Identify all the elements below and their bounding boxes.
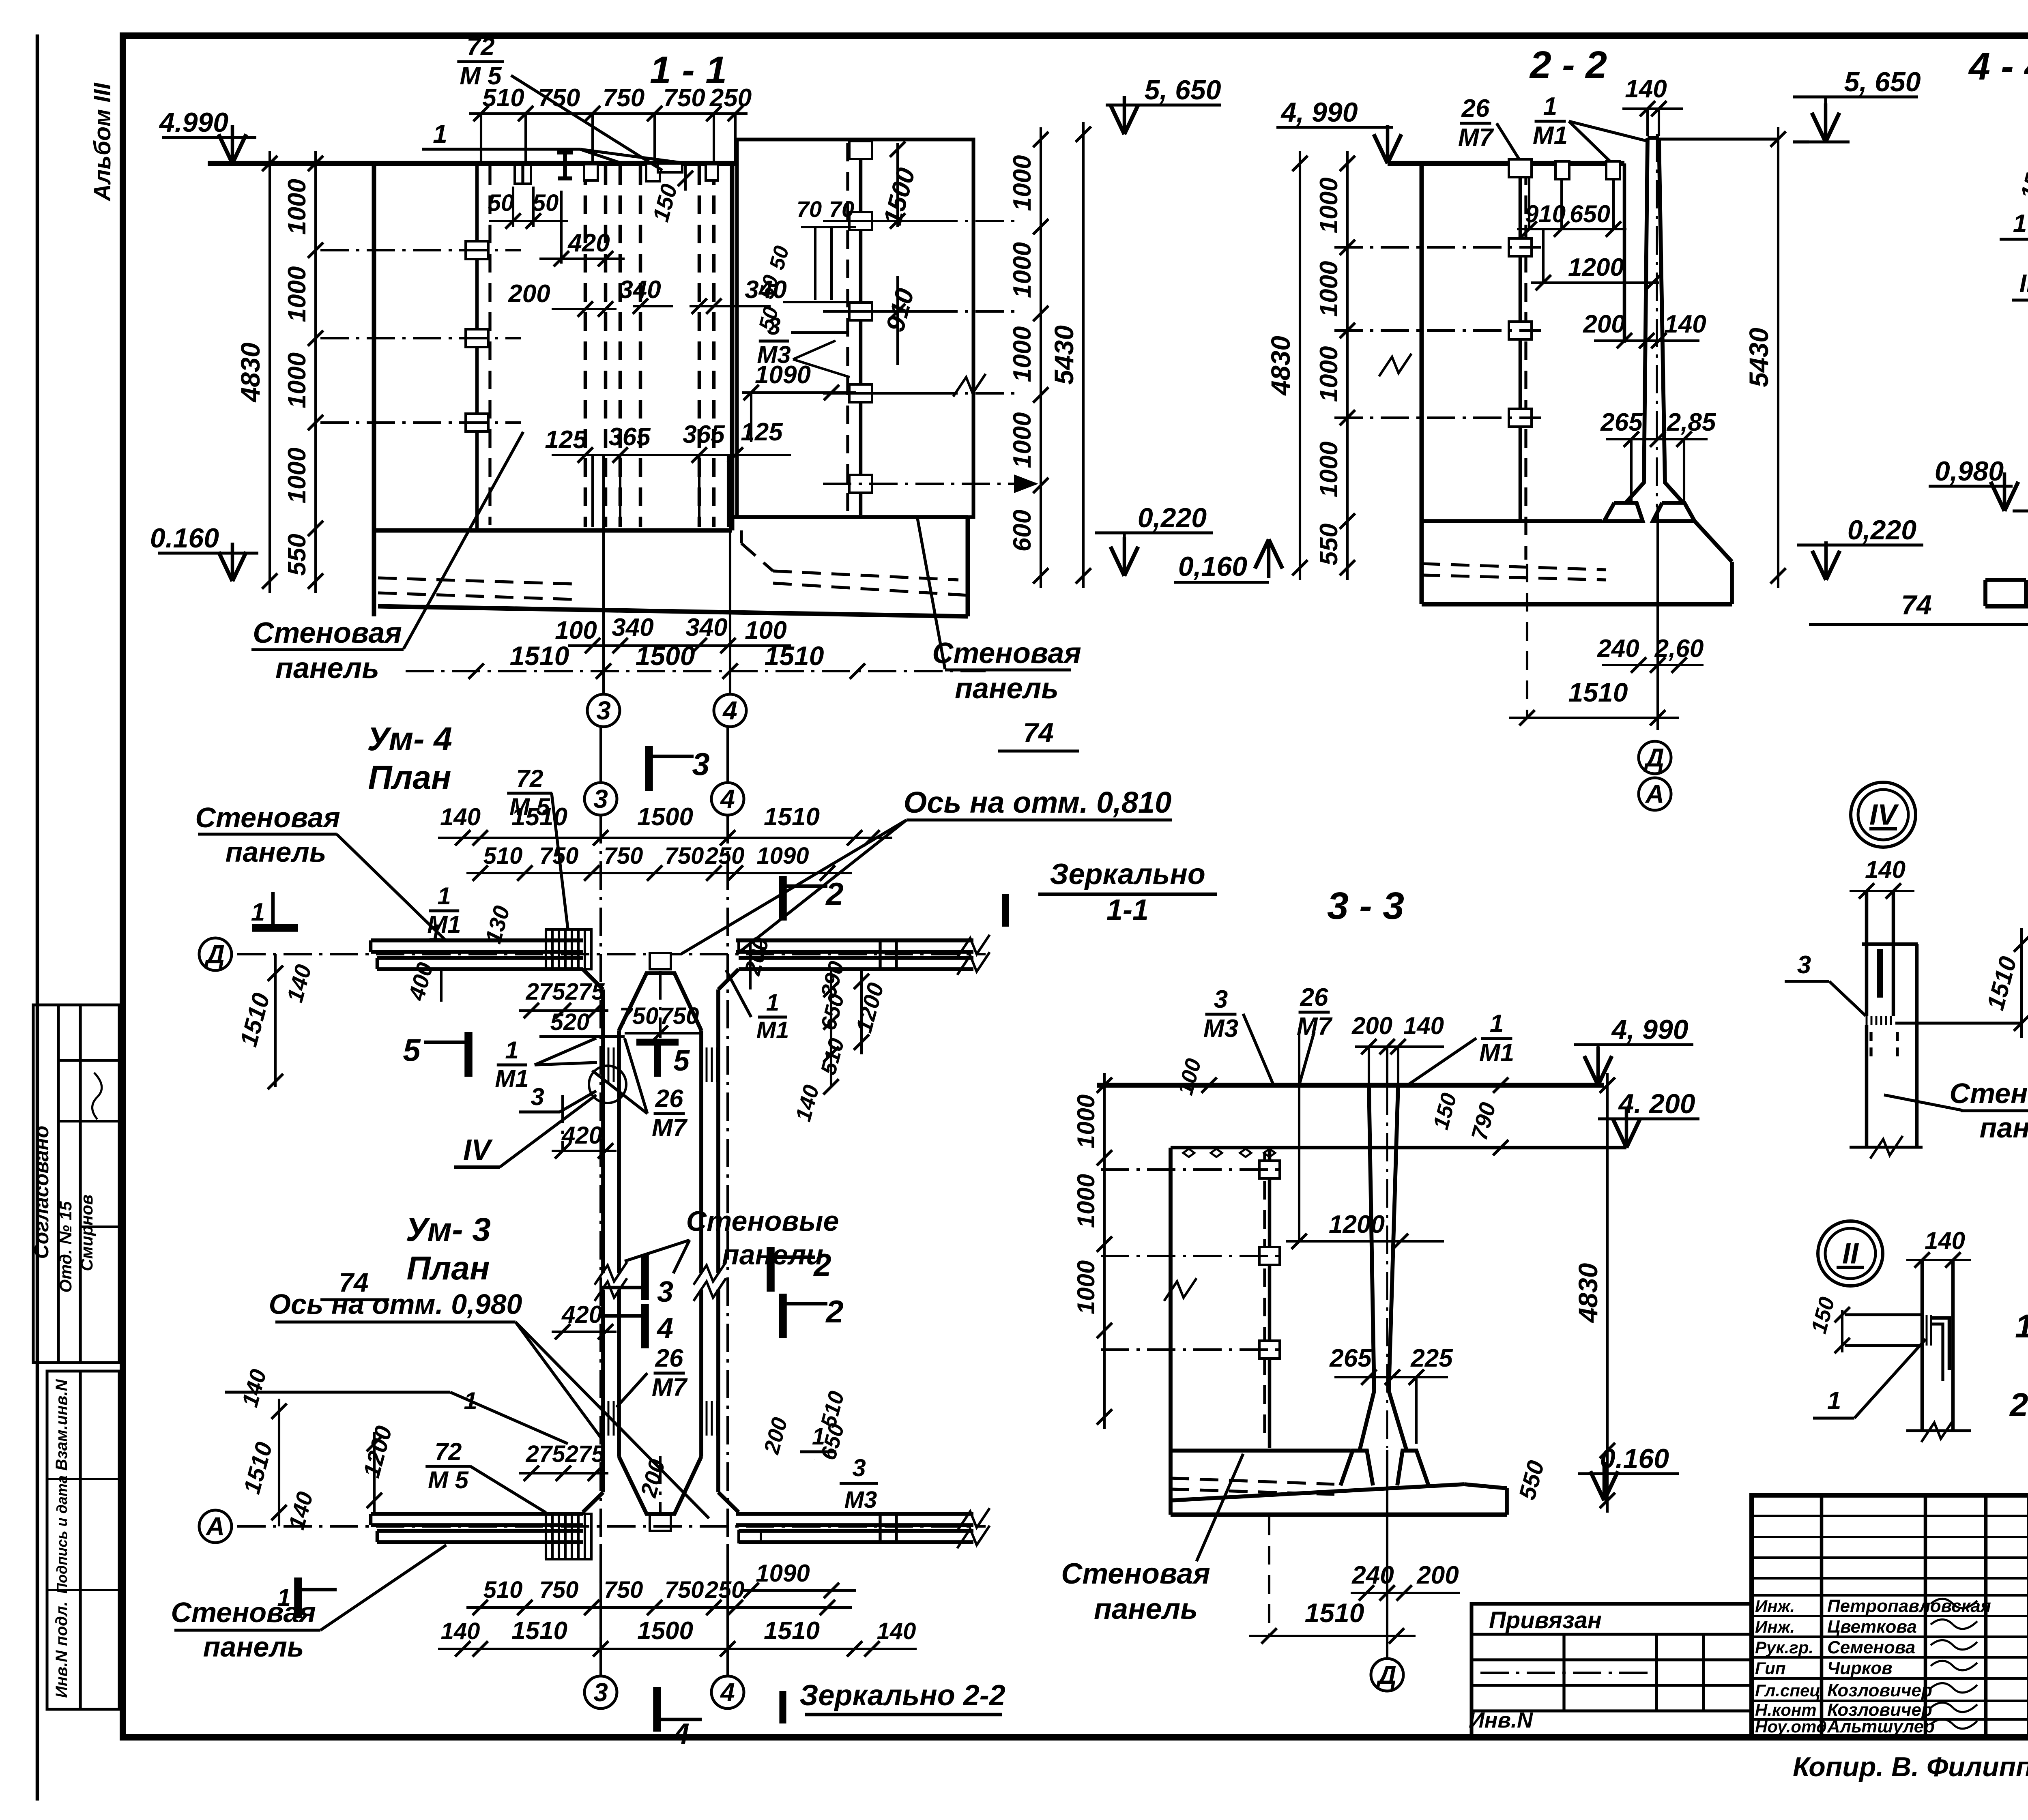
svg-text:панель: панель: [275, 652, 379, 685]
svg-text:Ум- 3: Ум- 3: [406, 1211, 491, 1248]
svg-text:1: 1: [1543, 92, 1557, 120]
svg-text:3: 3: [531, 1083, 544, 1110]
svg-text:0,980: 0,980: [1935, 456, 2004, 487]
svg-text:4830: 4830: [1573, 1263, 1603, 1323]
svg-text:750: 750: [665, 1577, 704, 1603]
svg-text:1000: 1000: [1008, 412, 1036, 468]
band joints plan3: [739, 1531, 761, 1542]
svg-text:550: 550: [1315, 524, 1343, 565]
corridor walls plan4: [601, 989, 605, 1273]
svg-text:панель: панель: [203, 1631, 304, 1663]
svg-text:1: 1: [251, 898, 265, 926]
svg-text:2: 2: [825, 1294, 843, 1329]
svg-text:70: 70: [797, 196, 822, 222]
section flag 2 bottom plan4: [767, 1247, 775, 1292]
svg-text:200: 200: [1351, 1012, 1392, 1039]
svg-text:910: 910: [1525, 200, 1566, 227]
svg-text:План: План: [406, 1250, 490, 1287]
svg-text:3 - 3: 3 - 3: [1327, 884, 1404, 927]
svg-text:750: 750: [604, 843, 643, 869]
svg-text:5430: 5430: [1049, 325, 1079, 385]
svg-text:5, 650: 5, 650: [1144, 75, 1221, 105]
svg-text:1000: 1000: [1008, 155, 1036, 211]
svg-text:1: 1: [1490, 1010, 1504, 1038]
svg-text:М1: М1: [756, 1017, 789, 1043]
interior line 3-3: [1268, 1150, 1272, 1448]
svg-text:Инж.: Инж.: [1755, 1597, 1795, 1616]
signature rows: [1752, 1594, 2028, 1597]
svg-text:Н.конт: Н.конт: [1755, 1700, 1817, 1719]
svg-text:5: 5: [673, 1045, 690, 1077]
wall band plan3: [371, 1512, 583, 1516]
svg-text:3: 3: [593, 1678, 608, 1707]
axis dash-dot rows left panel: [320, 249, 521, 251]
svg-text:А: А: [205, 1512, 225, 1541]
svg-text:Цветкова: Цветкова: [1827, 1617, 1917, 1637]
label 26 extension 3-3: [1298, 1032, 1300, 1241]
svg-text:365: 365: [608, 423, 651, 451]
svg-text:Стеновая: Стеновая: [1061, 1558, 1210, 1590]
svg-text:200: 200: [1416, 1561, 1459, 1589]
svg-text:140: 140: [1664, 310, 1706, 338]
svg-text:340: 340: [685, 614, 727, 642]
svg-text:4: 4: [722, 696, 737, 725]
svg-text:420: 420: [567, 229, 610, 257]
svg-text:М1: М1: [1533, 122, 1568, 150]
formwork dashed joints 1-1: [584, 166, 587, 527]
svg-text:4: 4: [720, 1678, 735, 1707]
svg-text:3: 3: [767, 313, 780, 340]
section flag 4 bottom plan3: [653, 1687, 661, 1732]
svg-text:125: 125: [741, 418, 783, 446]
svg-text:1090: 1090: [756, 843, 809, 869]
svg-text:140: 140: [440, 803, 481, 831]
svg-text:510: 510: [483, 1577, 523, 1603]
svg-text:Инв.N: Инв.N: [1469, 1708, 1533, 1732]
svg-text:140: 140: [1865, 856, 1906, 883]
svg-text:II: II: [1842, 1237, 1859, 1270]
svg-text:100: 100: [555, 616, 597, 644]
svg-text:520: 520: [550, 1009, 590, 1035]
axis bubble A plan3: [199, 1510, 232, 1543]
axis bubbles 3 4 bottom: [584, 1676, 617, 1708]
svg-text:IV: IV: [463, 1134, 493, 1166]
svg-text:1510: 1510: [1568, 677, 1628, 707]
svg-text:1000: 1000: [1315, 261, 1343, 317]
svg-text:4, 990: 4, 990: [1611, 1014, 1688, 1045]
svg-text:1: 1: [1827, 1387, 1841, 1415]
left margin approval stamp: [33, 1005, 119, 1363]
svg-text:Копир. В. Филиппова: Копир. В. Филиппова: [1793, 1751, 2028, 1782]
hanger embeds at top chord: [515, 165, 531, 184]
svg-text:М3: М3: [844, 1487, 877, 1513]
svg-text:панель: панель: [1094, 1593, 1198, 1625]
svg-text:26: 26: [655, 1344, 683, 1372]
svg-text:2 - 2: 2 - 2: [1529, 43, 1607, 86]
corridor wall hatches plan3: [602, 1401, 604, 1436]
svg-text:26: 26: [1300, 983, 1328, 1011]
svg-text:1510: 1510: [764, 803, 820, 831]
section mark 5-5 T plan4: [636, 1039, 679, 1045]
svg-text:750: 750: [665, 843, 704, 869]
section flag 1 left plan4: [252, 924, 298, 932]
svg-text:365: 365: [683, 421, 725, 449]
svg-text:Гл.спец: Гл.спец: [1755, 1681, 1820, 1700]
axis verticals through plans: [599, 815, 602, 1675]
svg-text:750: 750: [604, 1577, 643, 1603]
right wall panel rect 1-1: [737, 140, 973, 517]
svg-text:Инв.N подл.: Инв.N подл.: [53, 1601, 71, 1698]
svg-text:3: 3: [1214, 985, 1228, 1013]
chord 2-2: [1388, 161, 1624, 166]
svg-text:250: 250: [705, 1577, 745, 1603]
svg-text:200: 200: [508, 280, 550, 308]
bottom foundation left part: [732, 515, 968, 519]
svg-text:1000: 1000: [1008, 242, 1036, 298]
svg-text:1000: 1000: [1072, 1260, 1100, 1314]
svg-text:1000: 1000: [1315, 178, 1343, 234]
svg-text:М 5: М 5: [509, 793, 551, 820]
band panel joints plan4: [739, 940, 761, 952]
svg-text:1090: 1090: [755, 361, 811, 389]
level line top chord 1-1: [208, 161, 737, 166]
svg-text:Зеркально 2-2: Зеркально 2-2: [799, 1679, 1005, 1712]
svg-text:1000: 1000: [1072, 1095, 1100, 1148]
svg-text:225: 225: [1410, 1344, 1453, 1372]
svg-text:1000: 1000: [283, 448, 311, 504]
svg-text:1: 1: [766, 989, 779, 1016]
svg-text:1000: 1000: [283, 179, 311, 235]
svg-text:140: 140: [1625, 75, 1667, 103]
foundation 2-2: [1604, 503, 1643, 521]
svg-text:0,220: 0,220: [1848, 515, 1916, 545]
center tab element plan3: [650, 1515, 671, 1531]
svg-text:панель: панель: [226, 836, 327, 868]
svg-text:Ум- 4: Ум- 4: [367, 721, 452, 758]
svg-text:Ноу.отд: Ноу.отд: [1755, 1717, 1827, 1736]
axis rows 3-3: [1101, 1168, 1286, 1171]
svg-text:1. Совместно с данным см.: 1. Совместно с данным см.: [2015, 1308, 2028, 1345]
svg-text:1000: 1000: [1072, 1174, 1100, 1228]
svg-text:1500: 1500: [637, 803, 693, 831]
svg-text:250: 250: [709, 84, 752, 112]
svg-text:600: 600: [1008, 510, 1036, 552]
svg-text:74: 74: [1901, 590, 1932, 620]
detail IV bubble: [1851, 782, 1916, 847]
svg-text:420: 420: [561, 1301, 602, 1328]
center tab element plan4: [650, 953, 671, 969]
corridor wall hatches plan4: [602, 1047, 604, 1082]
svg-text:750: 750: [660, 1003, 699, 1029]
svg-text:Ось на отм. 0,810: Ось на отм. 0,810: [904, 786, 1172, 819]
right chain 4830 3-3: [1606, 1073, 1609, 1513]
svg-text:3: 3: [596, 696, 611, 725]
axis bubble 3: [587, 694, 620, 727]
svg-text:4830: 4830: [235, 342, 265, 403]
vertical dim 4830 view 1-1: [269, 151, 271, 593]
svg-text:750: 750: [539, 1577, 579, 1603]
svg-text:140: 140: [441, 1618, 480, 1644]
svg-text:72: 72: [435, 1438, 462, 1465]
left margin inventory stamp: [47, 1371, 119, 1709]
svg-text:4: 4: [720, 784, 735, 813]
wall rect 2-2: [1420, 163, 1424, 521]
section flag 4 top plan3: [641, 1304, 649, 1348]
svg-text:М3: М3: [1203, 1015, 1238, 1043]
svg-text:Рук.гр.: Рук.гр.: [1755, 1638, 1813, 1657]
svg-text:Стеновая: Стеновая: [171, 1597, 316, 1628]
svg-text:250: 250: [705, 843, 745, 869]
svg-text:50: 50: [533, 190, 559, 216]
svg-text:1510: 1510: [1305, 1598, 1364, 1628]
svg-text:750: 750: [663, 84, 705, 112]
svg-text:1200: 1200: [1329, 1210, 1385, 1238]
svg-text:Отд. № 15: Отд. № 15: [56, 1201, 75, 1293]
svg-text:2. Спецификация элементов: 2. Спецификация элементов: [2009, 1386, 2028, 1423]
svg-text:Альтшулер: Альтшулер: [1827, 1717, 1935, 1736]
svg-text:2,60: 2,60: [1654, 635, 1704, 663]
svg-text:панели: панели: [722, 1239, 823, 1271]
wall band plan4: [371, 938, 583, 942]
svg-text:Зеркально: Зеркально: [1050, 858, 1205, 891]
svg-text:0.160: 0.160: [150, 523, 219, 554]
interior line right panel: [859, 143, 863, 515]
svg-text:Согласовано: Согласовано: [30, 1126, 53, 1259]
svg-text:М7: М7: [1297, 1013, 1333, 1041]
svg-text:1000: 1000: [1008, 326, 1036, 382]
svg-text:50: 50: [488, 190, 514, 216]
svg-text:1500: 1500: [637, 1617, 693, 1645]
svg-text:Петропавловская: Петропавловская: [1827, 1596, 1991, 1616]
svg-text:4. 200: 4. 200: [1618, 1088, 1695, 1119]
svg-text:275: 275: [526, 979, 566, 1005]
svg-text:М7: М7: [652, 1114, 688, 1142]
svg-text:275: 275: [565, 979, 605, 1005]
svg-text:А: А: [1645, 779, 1664, 809]
band axis line plan4: [237, 953, 986, 955]
svg-text:72: 72: [467, 33, 495, 61]
svg-text:340: 340: [612, 614, 653, 642]
panel rect 3-3: [1169, 1148, 1173, 1451]
svg-text:1510: 1510: [511, 1617, 567, 1645]
svg-text:70: 70: [829, 196, 854, 222]
svg-text:1: 1: [437, 882, 451, 910]
svg-text:140: 140: [877, 1618, 916, 1644]
svg-text:72: 72: [516, 765, 544, 792]
right vertical chains 1-1: [1040, 127, 1042, 588]
svg-text:Инж.: Инж.: [1755, 1617, 1795, 1636]
svg-text:Привязан: Привязан: [1489, 1607, 1602, 1633]
svg-text:М7: М7: [652, 1374, 688, 1401]
svg-text:140: 140: [1403, 1012, 1444, 1039]
axis rows right panel: [823, 220, 929, 222]
svg-text:1-1: 1-1: [1106, 894, 1149, 926]
svg-text:Д: Д: [1643, 743, 1664, 772]
top dimension chain 510/750/750/750/250: [469, 112, 748, 115]
svg-text:Стеновая: Стеновая: [253, 617, 402, 649]
svg-text:План: План: [368, 759, 451, 796]
svg-text:Стеновая: Стеновая: [1949, 1077, 2028, 1109]
svg-text:1: 1: [505, 1037, 518, 1064]
svg-text:2: 2: [825, 876, 843, 912]
svg-text:510: 510: [483, 843, 523, 869]
svg-text:Козловичер: Козловичер: [1827, 1680, 1932, 1700]
level line 5430 top: [1659, 137, 1778, 140]
axes 3,4 verticals: [602, 455, 605, 694]
svg-text:Д: Д: [1376, 1660, 1396, 1689]
top diamonds 3-3: [1183, 1149, 1194, 1157]
svg-text:0,220: 0,220: [1138, 502, 1207, 533]
section flag 2 plan3: [779, 1294, 787, 1338]
svg-text:5: 5: [403, 1032, 421, 1068]
svg-text:26: 26: [655, 1085, 683, 1113]
svg-text:Альбом III: Альбом III: [89, 82, 116, 202]
svg-text:4: 4: [656, 1312, 673, 1345]
right chain 5430 2-2: [1777, 127, 1779, 588]
svg-text:750: 750: [603, 84, 644, 112]
section flag 2 plan4: [779, 876, 787, 921]
svg-text:0.160: 0.160: [1600, 1443, 1669, 1474]
svg-text:1000: 1000: [283, 352, 311, 408]
monolithic joint hatch plan4: [545, 929, 547, 969]
svg-text:5430: 5430: [1744, 328, 1774, 387]
left chains 2-2: [1346, 151, 1349, 580]
svg-text:3: 3: [1797, 951, 1811, 979]
title block columns left: [1820, 1495, 1824, 1736]
vertical chain 1000s view 1-1: [314, 151, 317, 593]
svg-text:650: 650: [1570, 200, 1610, 227]
svg-text:IV: IV: [1869, 798, 1899, 831]
svg-text:Д: Д: [204, 940, 225, 969]
svg-text:140: 140: [1925, 1227, 1965, 1254]
svg-text:550: 550: [283, 534, 311, 575]
svg-text:Стеновая: Стеновая: [195, 802, 340, 833]
svg-text:Смирнов: Смирнов: [77, 1194, 96, 1271]
svg-text:1510: 1510: [764, 1617, 820, 1645]
svg-text:Стеновая: Стеновая: [932, 637, 1081, 670]
bottom break plan4: [595, 1262, 627, 1285]
hatch + bracket detail II: [1921, 1315, 1923, 1346]
axis bubbles D A 2-2: [1639, 741, 1671, 774]
foundation 3-3: [1341, 1451, 1373, 1485]
section flag 1 left plan3: [294, 1577, 302, 1618]
svg-text:200: 200: [1583, 310, 1625, 338]
svg-text:74: 74: [1023, 717, 1054, 748]
axis bubble 4: [714, 694, 746, 727]
svg-text:3: 3: [852, 1454, 866, 1481]
band axis plan3: [237, 1525, 986, 1528]
svg-text:1000: 1000: [1315, 442, 1343, 498]
svg-text:Семенова: Семенова: [1827, 1638, 1915, 1657]
svg-text:Взам.инв.N: Взам.инв.N: [53, 1379, 71, 1470]
left chain 3-3: [1103, 1073, 1106, 1429]
page border left: [36, 34, 39, 1801]
svg-text:1: 1: [433, 119, 447, 148]
svg-text:4: 4: [672, 1718, 690, 1750]
svg-text:Чирков: Чирков: [1827, 1658, 1893, 1678]
chord 3-3: [1097, 1083, 1604, 1088]
svg-text:340: 340: [619, 276, 661, 304]
svg-text:240: 240: [1597, 635, 1639, 663]
corridor walls plan3: [601, 1290, 605, 1492]
svg-text:М 5: М 5: [428, 1466, 469, 1494]
svg-text:1000: 1000: [1315, 346, 1343, 402]
svg-text:125: 125: [545, 426, 587, 454]
svg-text:4830: 4830: [1265, 336, 1295, 396]
svg-text:3: 3: [657, 1276, 673, 1308]
svg-text:3: 3: [593, 784, 608, 813]
interior joint line 2-2: [1519, 166, 1522, 521]
line 4.200 3-3: [1171, 1146, 1626, 1150]
svg-text:0,160: 0,160: [1178, 551, 1247, 582]
IV detail circle plan4: [589, 1066, 626, 1103]
svg-text:Подпись и дата: Подпись и дата: [54, 1475, 70, 1594]
axis bubble D plan4: [199, 938, 232, 970]
svg-text:Стеновые: Стеновые: [686, 1205, 839, 1237]
svg-text:II: II: [2019, 270, 2028, 298]
svg-text:265: 265: [1329, 1344, 1372, 1372]
svg-text:1: 1: [2013, 210, 2027, 238]
pre-title table: [1472, 1604, 1752, 1736]
interior panel joint line with embeds: [475, 166, 479, 530]
svg-text:М1: М1: [495, 1065, 528, 1092]
svg-text:1510: 1510: [510, 641, 569, 671]
svg-text:М7: М7: [1458, 124, 1494, 152]
svg-text:4 - 4: 4 - 4: [1968, 45, 2028, 88]
svg-text:4, 990: 4, 990: [1280, 97, 1358, 128]
svg-text:100: 100: [745, 616, 786, 644]
svg-text:1200: 1200: [1568, 253, 1624, 281]
svg-text:5, 650: 5, 650: [1844, 67, 1921, 97]
wall panel left rect 1-1: [372, 163, 376, 530]
column 2-2: [1626, 138, 1648, 503]
svg-text:М1: М1: [1479, 1039, 1514, 1067]
svg-text:275: 275: [565, 1441, 605, 1467]
svg-text:М 5: М 5: [460, 62, 502, 90]
svg-text:750: 750: [619, 1003, 659, 1029]
svg-text:4.990: 4.990: [159, 107, 228, 138]
section flag 3 bottom plan4: [641, 1255, 649, 1300]
title block top mini rows: [1752, 1515, 2028, 1517]
column 3-3: [1360, 1085, 1374, 1451]
svg-text:1090: 1090: [756, 1560, 810, 1587]
svg-text:панель: панель: [955, 672, 1059, 705]
svg-text:26: 26: [1461, 94, 1490, 122]
svg-text:1000: 1000: [283, 266, 311, 322]
svg-text:панель: панель: [1980, 1112, 2028, 1144]
svg-text:Ось на отм. 0,980: Ось на отм. 0,980: [269, 1288, 522, 1320]
svg-text:3: 3: [692, 746, 709, 782]
axis bubble D 3-3: [1371, 1659, 1403, 1691]
title block frame: [1752, 1495, 2028, 1736]
svg-text:1: 1: [429, 920, 442, 946]
detail II bubble: [1818, 1221, 1883, 1286]
monolithic joint hatch plan3: [545, 1514, 547, 1559]
svg-text:275: 275: [526, 1441, 566, 1467]
axis bubbles 3 4 row2: [584, 783, 617, 815]
section flag 3 top plan4: [645, 746, 653, 791]
svg-text:Гип: Гип: [1755, 1659, 1786, 1678]
axis rows 2-2: [1334, 246, 1541, 249]
